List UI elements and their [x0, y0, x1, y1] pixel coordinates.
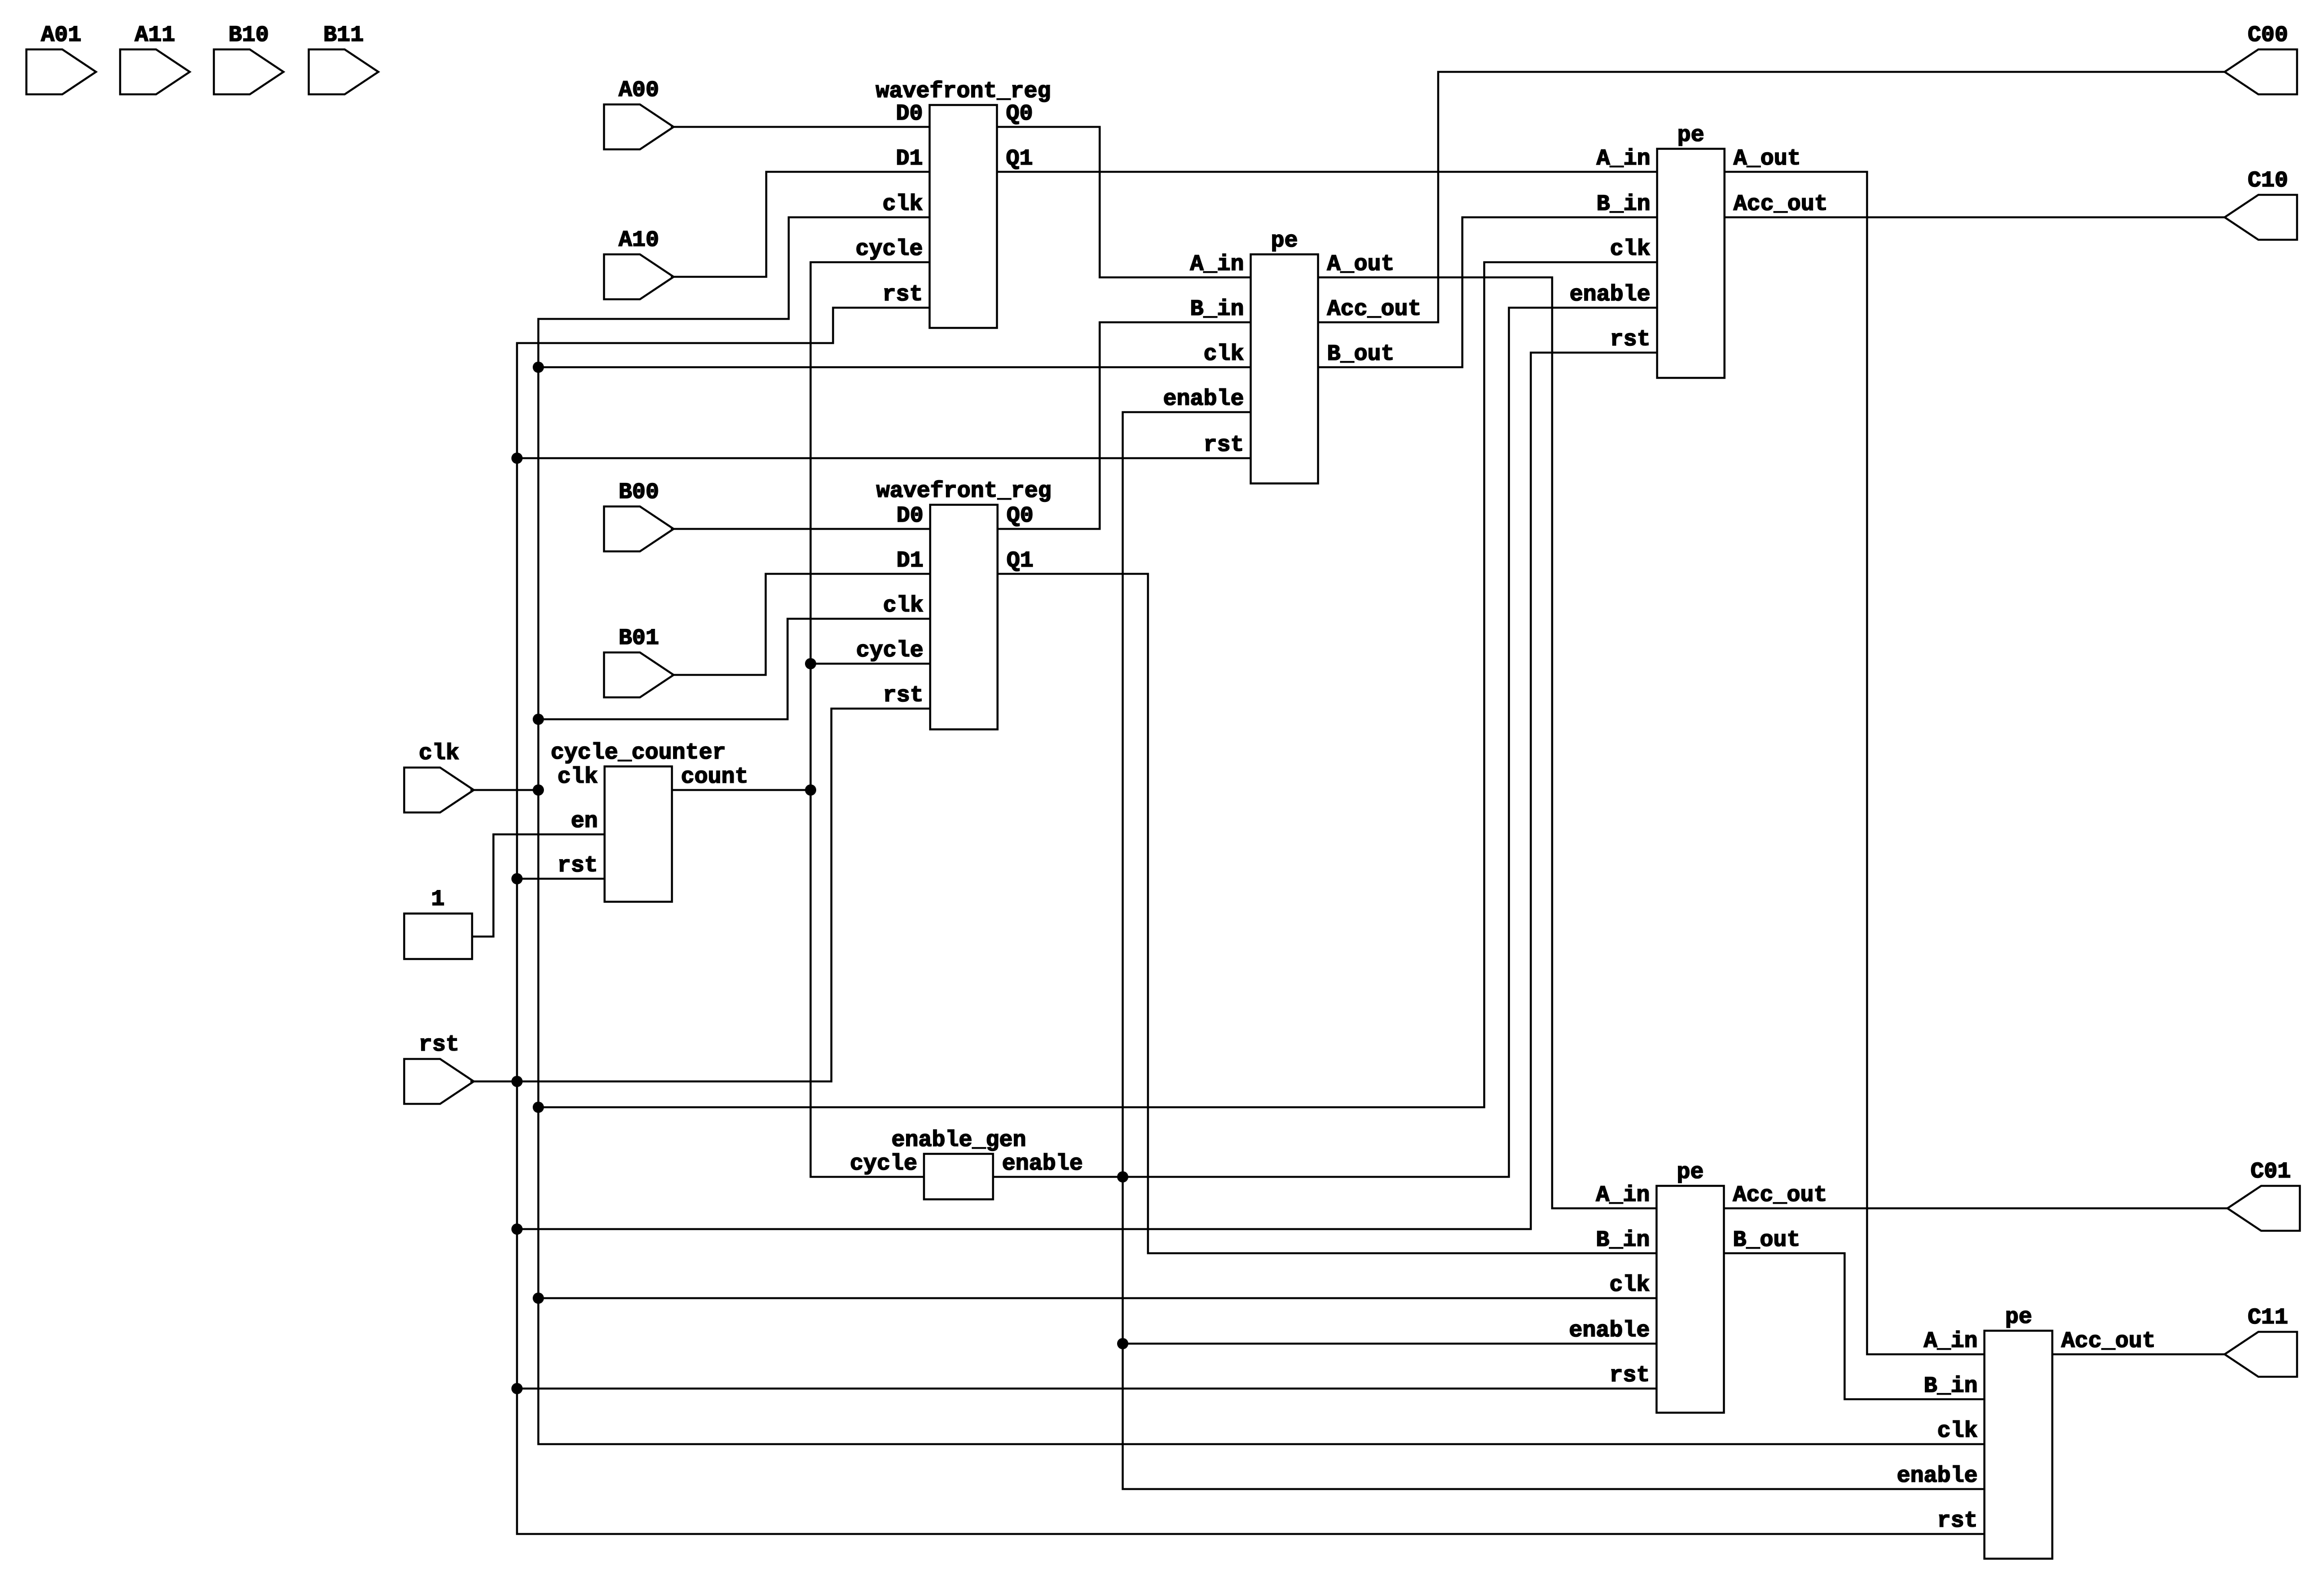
svg-text:Acc_out: Acc_out — [1327, 297, 1421, 322]
svg-text:C10: C10 — [2248, 168, 2288, 194]
wire pe PE4 Acc_out to C11 — [2052, 1353, 2225, 1355]
output port C00 — [2225, 23, 2297, 94]
svg-text:enable: enable — [1569, 1318, 1650, 1344]
svg-text:Q0: Q0 — [1006, 102, 1033, 127]
svg-text:C00: C00 — [2248, 23, 2288, 48]
svg-text:D0: D0 — [896, 102, 923, 127]
wire clk net branch to pe PE2 clk — [538, 262, 1657, 1107]
svg-text:A_in: A_in — [1924, 1329, 1978, 1354]
wire pe PE2 Acc_out to C10 — [1724, 216, 2225, 218]
svg-text:B11: B11 — [323, 23, 364, 48]
wire B01 to wavefront_reg U2 D1 — [671, 574, 930, 675]
svg-text:clk: clk — [419, 741, 459, 766]
junction clk net junction at PE3 clk branch — [533, 1293, 544, 1304]
svg-text:A_in: A_in — [1596, 1183, 1650, 1208]
svg-text:pe: pe — [1677, 123, 1704, 148]
input port A01 — [26, 23, 96, 94]
input port clk — [404, 741, 474, 812]
svg-text:cycle: cycle — [856, 638, 923, 664]
input port B01 — [604, 626, 674, 697]
wire constant 1 to cycle_counter U3 en — [472, 834, 605, 937]
svg-text:enable: enable — [1570, 282, 1650, 308]
svg-text:rst: rst — [883, 683, 923, 709]
svg-text:pe: pe — [1677, 1160, 1704, 1185]
wire enable net branch to pe PE1 enable — [1123, 412, 1251, 1177]
junction clk net junction at U2 clk branch — [533, 714, 544, 725]
svg-text:Acc_out: Acc_out — [1733, 1183, 1827, 1208]
wire A10 to wavefront_reg U1 D1 — [671, 172, 930, 277]
svg-text:D1: D1 — [896, 549, 923, 574]
wire wavefront_reg U1 Q1 to pe PE2 A_in — [997, 171, 1657, 173]
input port A11 — [120, 23, 190, 94]
svg-text:1: 1 — [431, 887, 445, 912]
svg-text:A00: A00 — [619, 78, 659, 103]
junction rst net junction at PE3 rst branch — [511, 1383, 523, 1394]
svg-text:A11: A11 — [135, 23, 175, 48]
svg-text:clk: clk — [1609, 1273, 1650, 1298]
wire enable net trunk enable_gen out to pe PE2 enable — [993, 308, 1657, 1177]
wire wavefront_reg U2 Q0 to pe PE1 B_in — [998, 322, 1251, 529]
svg-text:clk: clk — [882, 192, 923, 217]
svg-text:A10: A10 — [619, 228, 659, 253]
svg-text:B_in: B_in — [1596, 1228, 1650, 1253]
svg-text:C11: C11 — [2248, 1305, 2288, 1331]
wire cycle net branch to wavefront_reg U2 cycle — [811, 663, 930, 665]
module enable_gen U4 — [850, 1128, 1083, 1199]
wire pe PE1 A_out to pe PE3 A_in — [1318, 277, 1657, 1208]
module cycle_counter U3 — [551, 741, 748, 902]
output port C11 — [2225, 1305, 2297, 1377]
junction rst net junction at rst port — [511, 1076, 523, 1087]
wire pe PE3 B_out to pe PE4 B_in — [1724, 1253, 1984, 1399]
svg-text:Q1: Q1 — [1006, 147, 1033, 172]
svg-text:pe: pe — [1271, 229, 1298, 254]
module pe PE4 — [1897, 1305, 2156, 1559]
input port A00 — [604, 78, 674, 149]
module pe PE1 — [1163, 229, 1421, 483]
input port A10 — [604, 228, 674, 299]
junction enable net junction at enable_gen output — [1117, 1171, 1128, 1182]
svg-text:B_out: B_out — [1733, 1228, 1800, 1253]
svg-text:C01: C01 — [2250, 1159, 2291, 1185]
wire clk net branch to pe PE1 clk — [538, 366, 1251, 368]
junction cycle net junction at count output — [805, 784, 816, 796]
svg-text:enable: enable — [1897, 1464, 1978, 1489]
module pe PE2 — [1570, 123, 1828, 378]
junction rst net junction at PE2 rst branch — [511, 1223, 523, 1235]
junction enable net junction at PE3 enable branch — [1117, 1338, 1128, 1349]
constant 1 — [404, 887, 472, 959]
svg-text:cycle: cycle — [856, 237, 923, 262]
svg-text:clk: clk — [1610, 237, 1650, 262]
svg-text:enable: enable — [1002, 1152, 1083, 1177]
svg-text:A_in: A_in — [1596, 147, 1650, 172]
wire rst net branch to pe PE2 rst — [517, 353, 1657, 1229]
input port B00 — [604, 480, 674, 551]
wire enable net branch to pe PE4 enable — [1123, 1177, 1984, 1489]
svg-text:A_out: A_out — [1327, 252, 1394, 277]
wire wavefront_reg U2 Q1 to pe PE3 B_in — [998, 574, 1657, 1253]
wire rst net branch to pe PE1 rst — [517, 457, 1251, 459]
wire clk net branch to wavefront_reg U2 clk — [538, 619, 930, 719]
output port C10 — [2225, 168, 2297, 240]
svg-text:A01: A01 — [41, 23, 81, 48]
wire rst net branch to pe PE3 rst — [517, 1387, 1657, 1390]
svg-text:D1: D1 — [896, 147, 923, 172]
wire A00 to wavefront_reg U1 D0 — [671, 126, 930, 128]
wire rst net branch rst port to wavefront_reg U2 rst — [470, 709, 930, 1081]
svg-text:Acc_out: Acc_out — [2061, 1329, 2156, 1354]
module wavefront_reg U2 — [856, 479, 1051, 729]
svg-text:Q0: Q0 — [1007, 504, 1033, 529]
wire pe PE2 A_out to pe PE4 A_in — [1724, 172, 1984, 1354]
svg-text:pe: pe — [2005, 1305, 2032, 1330]
wire cycle net trunk U1 cycle down to enable_gen cycle — [811, 262, 930, 1177]
svg-text:wavefront_reg: wavefront_reg — [876, 79, 1051, 104]
svg-text:D0: D0 — [896, 504, 923, 529]
svg-text:clk: clk — [1204, 342, 1244, 367]
svg-text:en: en — [571, 809, 598, 834]
output port C01 — [2227, 1159, 2300, 1231]
svg-text:clk: clk — [557, 765, 598, 790]
wire enable net branch to pe PE3 enable — [1123, 1343, 1657, 1345]
wire pe PE1 B_out to pe PE2 B_in — [1318, 217, 1657, 367]
svg-text:B_in: B_in — [1924, 1374, 1978, 1399]
input port rst — [404, 1033, 474, 1104]
svg-text:B00: B00 — [619, 480, 659, 505]
svg-text:clk: clk — [1937, 1419, 1978, 1444]
wire rst net branch to cycle_counter U3 rst — [517, 878, 605, 880]
svg-text:rst: rst — [419, 1033, 459, 1058]
svg-text:Q1: Q1 — [1007, 549, 1033, 574]
input port B11 — [309, 23, 378, 94]
junction cycle net junction at U2 cycle branch — [805, 658, 816, 669]
svg-text:A_in: A_in — [1190, 252, 1244, 277]
svg-text:B10: B10 — [228, 23, 269, 48]
svg-text:B_out: B_out — [1327, 342, 1394, 367]
wire clk net trunk U1 clk down to PE4 clk — [538, 217, 1984, 1444]
svg-text:count: count — [681, 765, 748, 790]
svg-text:clk: clk — [883, 593, 923, 619]
svg-text:B_in: B_in — [1190, 297, 1244, 322]
svg-text:rst: rst — [1204, 433, 1244, 458]
svg-text:cycle: cycle — [850, 1152, 917, 1177]
wire clk net branch to clk port — [470, 789, 538, 791]
svg-text:cycle_counter: cycle_counter — [551, 741, 726, 766]
junction clk net junction at PE1 clk branch — [533, 362, 544, 373]
svg-text:enable: enable — [1163, 387, 1244, 412]
input port B10 — [214, 23, 283, 94]
svg-text:rst: rst — [1937, 1509, 1978, 1534]
wire B00 to wavefront_reg U2 D0 — [671, 528, 930, 530]
junction rst net junction at PE1 rst branch — [511, 453, 523, 464]
wire wavefront_reg U1 Q0 to pe PE1 A_in — [997, 127, 1251, 277]
svg-text:B_in: B_in — [1596, 192, 1650, 217]
junction clk net junction at clk port — [533, 784, 544, 796]
module wavefront_reg U1 — [856, 79, 1051, 328]
svg-text:rst: rst — [1609, 1363, 1650, 1389]
svg-text:A_out: A_out — [1733, 147, 1801, 172]
svg-text:rst: rst — [1610, 327, 1650, 353]
wire cycle net branch from cycle_counter U3 count — [672, 789, 811, 791]
junction rst net junction at U3 rst branch — [511, 873, 523, 884]
junction clk net junction at PE2 clk branch — [533, 1102, 544, 1113]
module pe PE3 — [1569, 1160, 1827, 1413]
svg-text:rst: rst — [557, 853, 598, 879]
svg-text:enable_gen: enable_gen — [891, 1128, 1026, 1153]
svg-text:wavefront_reg: wavefront_reg — [876, 479, 1051, 504]
svg-text:B01: B01 — [619, 626, 659, 651]
svg-text:Acc_out: Acc_out — [1733, 192, 1828, 217]
wire rst net trunk U1 rst down to PE4 rst — [517, 308, 1984, 1534]
svg-text:rst: rst — [882, 282, 923, 308]
wire pe PE3 Acc_out to C01 — [1724, 1207, 2227, 1209]
wire clk net branch to pe PE3 clk — [538, 1297, 1657, 1299]
wire pe PE1 Acc_out to C00 — [1318, 72, 2225, 322]
